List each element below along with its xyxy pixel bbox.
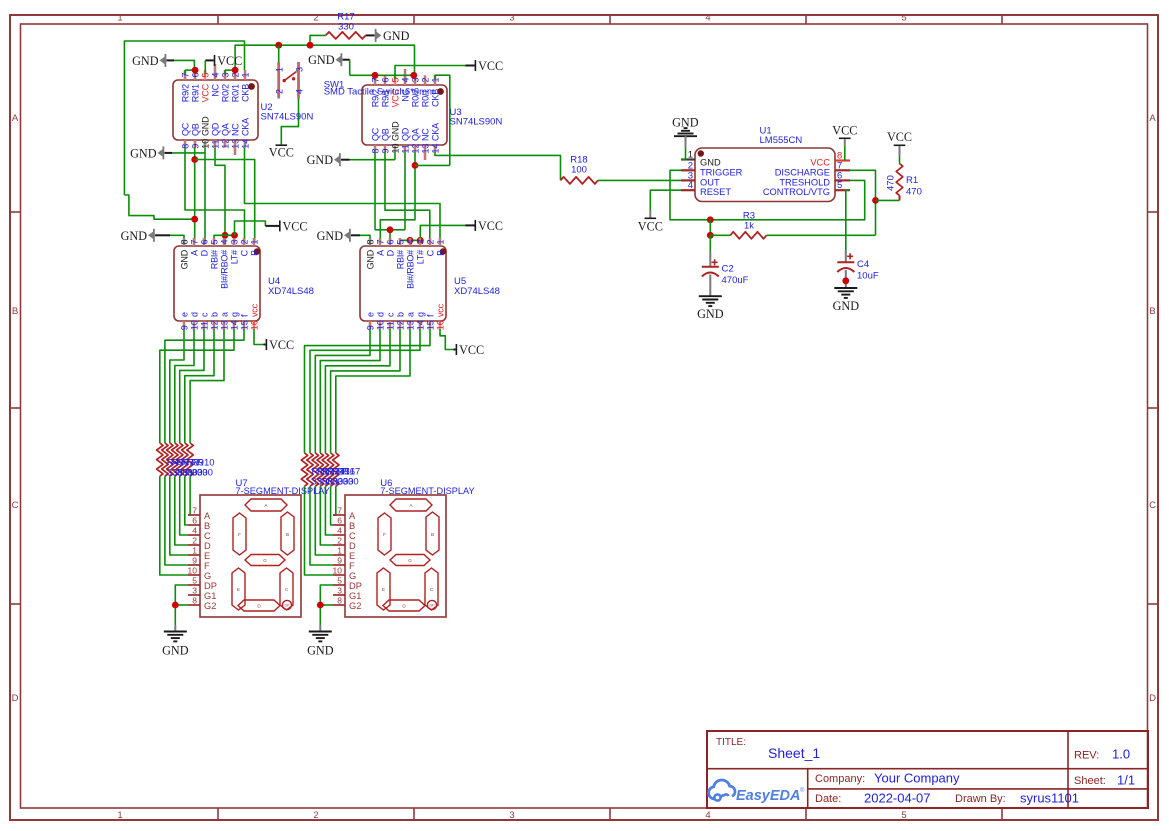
svg-text:LM555CN: LM555CN — [760, 135, 803, 146]
svg-text:A: A — [375, 250, 385, 256]
power flag VCC above R1 — [887, 130, 912, 155]
svg-text:®: ® — [800, 787, 805, 794]
wire U2 pin9 to U4 pin1 — [195, 160, 255, 244]
svg-text:E: E — [349, 551, 355, 561]
junction U5 pin3 — [417, 237, 424, 244]
svg-text:B: B — [286, 532, 289, 537]
wire VCC to U1 pin8 — [844, 147, 846, 161]
svg-text:8: 8 — [337, 596, 342, 606]
power flag VCC right of U3 top — [465, 59, 503, 73]
svg-text:a: a — [219, 312, 229, 317]
svg-text:GND: GND — [179, 249, 189, 269]
svg-text:7: 7 — [189, 239, 199, 244]
junction U2 pin2 — [232, 67, 239, 74]
junction U4 pin3 — [231, 232, 238, 239]
svg-text:LT#: LT# — [415, 250, 425, 264]
U1 right pin stubs — [835, 161, 850, 191]
svg-text:G1: G1 — [349, 591, 361, 601]
svg-text:Date:: Date: — [815, 793, 841, 805]
svg-text:Your Company: Your Company — [874, 771, 960, 786]
svg-text:R1: R1 — [906, 175, 918, 186]
svg-text:10: 10 — [375, 320, 385, 330]
wire U3 pin14 to R18 — [435, 152, 561, 180]
svg-text:4: 4 — [192, 526, 197, 536]
svg-text:1: 1 — [337, 546, 342, 556]
svg-text:B: B — [431, 532, 434, 537]
svg-text:4: 4 — [400, 77, 410, 82]
svg-text:D: D — [204, 541, 211, 551]
svg-text:7: 7 — [375, 239, 385, 244]
svg-text:G: G — [349, 571, 356, 581]
U7 pin names — [204, 511, 217, 611]
junction staircase joins pin7 column — [191, 216, 198, 223]
wire R1 bottom to DISCHARGE column — [876, 199, 900, 201]
resistor R18 100 — [561, 155, 599, 184]
wires left resistors to display U7 — [160, 476, 190, 575]
power flag VCC below SW1 — [269, 144, 294, 159]
U2 top pin names — [180, 83, 250, 102]
svg-text:7: 7 — [337, 506, 342, 516]
svg-text:470: 470 — [886, 175, 897, 191]
svg-text:QB: QB — [190, 123, 200, 136]
junction at R17 column — [307, 42, 314, 49]
svg-text:3: 3 — [337, 586, 342, 596]
svg-text:c: c — [385, 312, 395, 317]
svg-text:1/1: 1/1 — [1117, 773, 1135, 788]
wire U3 pin5 to VCC — [395, 66, 465, 80]
U4 top pin names — [179, 249, 259, 289]
svg-text:A: A — [1149, 113, 1156, 124]
resistor R1 470 vertical — [886, 164, 922, 201]
svg-text:GND: GND — [121, 229, 148, 243]
svg-text:8: 8 — [192, 596, 197, 606]
wires right resistors to display U6 — [305, 486, 336, 575]
capacitor C4 10uF polarized — [837, 250, 879, 288]
svg-text:1: 1 — [117, 13, 122, 24]
svg-text:GND: GND — [162, 644, 189, 658]
wire GND to U5 pin8 — [360, 235, 370, 238]
U4 bottom pin numbers — [179, 320, 259, 330]
svg-text:QD: QD — [210, 122, 220, 136]
display U6 7-SEGMENT-DISPLAY body — [345, 478, 475, 617]
power flag VCC above U2 — [205, 54, 242, 68]
svg-text:A: A — [349, 511, 356, 521]
svg-text:g: g — [415, 312, 425, 317]
U1 pin names — [700, 158, 830, 198]
svg-text:CKA: CKA — [240, 118, 250, 136]
wire U2 pin8 to U4 pin2 — [185, 148, 245, 243]
svg-text:9: 9 — [337, 556, 342, 566]
svg-text:10: 10 — [188, 566, 198, 576]
svg-text:A: A — [12, 113, 19, 124]
resistor stack R4-R10 330 left — [157, 443, 194, 476]
U4 bottom pin stubs — [184, 321, 254, 329]
U1 left pin stubs — [681, 160, 695, 191]
svg-text:GND: GND — [365, 249, 375, 269]
svg-text:13: 13 — [405, 320, 415, 330]
wire R3 column from trigger line — [709, 220, 711, 236]
svg-text:1k: 1k — [744, 221, 754, 232]
svg-text:4: 4 — [405, 239, 415, 244]
svg-text:D: D — [349, 541, 356, 551]
svg-text:10uF: 10uF — [857, 271, 879, 282]
svg-text:2: 2 — [275, 89, 285, 94]
svg-text:QC: QC — [370, 127, 380, 141]
svg-text:3: 3 — [509, 810, 514, 821]
svg-text:1: 1 — [435, 239, 445, 244]
svg-text:VCC: VCC — [459, 343, 484, 357]
svg-text:6: 6 — [192, 516, 197, 526]
svg-text:B: B — [249, 250, 259, 256]
wire GND to U4 pin8 — [170, 235, 184, 238]
svg-text:e: e — [365, 312, 375, 317]
U5 bottom pin stubs — [370, 321, 440, 329]
svg-text:7-SEGMENT-DISPLAY: 7-SEGMENT-DISPLAY — [380, 486, 474, 496]
wire U3 pin12 down to jog — [380, 152, 415, 243]
U6 pin numbers — [333, 506, 343, 606]
svg-text:vcc: vcc — [435, 303, 445, 317]
svg-text:10: 10 — [189, 320, 199, 330]
svg-text:4: 4 — [210, 72, 220, 77]
svg-text:10: 10 — [333, 566, 343, 576]
junction at SW1 pin1 column — [275, 42, 282, 49]
U2 top pin numbers — [180, 72, 250, 77]
svg-text:TITLE:: TITLE: — [716, 737, 746, 748]
EasyEDA logo — [709, 780, 805, 804]
svg-text:11: 11 — [210, 139, 220, 148]
svg-text:TRIGGER: TRIGGER — [700, 167, 743, 177]
svg-text:4: 4 — [688, 180, 693, 191]
svg-text:3: 3 — [509, 13, 514, 24]
svg-text:6: 6 — [385, 239, 395, 244]
svg-text:Sheet:: Sheet: — [1074, 775, 1106, 787]
svg-text:2: 2 — [313, 13, 318, 24]
svg-text:VCC: VCC — [810, 158, 830, 168]
svg-text:DP: DP — [349, 581, 362, 591]
svg-text:QB: QB — [380, 128, 390, 141]
display U7 7-SEGMENT-DISPLAY body — [200, 478, 330, 617]
svg-text:SMD Tactile Switch6*6mm: SMD Tactile Switch6*6mm — [324, 87, 435, 98]
U1 pin numbers — [688, 150, 843, 192]
U7 pin stubs — [188, 515, 200, 605]
junction U3 pin7 — [372, 72, 379, 79]
wire U4 pin3 to VCC flag — [235, 221, 266, 235]
svg-text:GND: GND — [697, 307, 724, 321]
wire U3 pin8 down — [374, 152, 376, 230]
svg-text:16: 16 — [435, 320, 445, 330]
wire SW1 pin1 drop — [278, 45, 280, 62]
U5 top pin numbers — [365, 239, 445, 244]
U3 bottom pin numbers — [370, 143, 440, 153]
svg-text:VCC: VCC — [269, 338, 294, 352]
svg-text:F: F — [349, 561, 355, 571]
svg-text:g: g — [229, 312, 239, 317]
svg-text:VCC: VCC — [200, 83, 210, 102]
svg-text:CKA: CKA — [430, 123, 440, 141]
svg-text:12: 12 — [410, 143, 420, 153]
junction U6 G2 — [317, 602, 324, 609]
ground flag GND above U3 — [308, 53, 350, 67]
wires U5 outputs fan to resistor stack — [305, 329, 431, 453]
wire top H2 net to U3 pin3 — [235, 45, 414, 75]
wire U4 pins5-3 tie — [214, 235, 235, 243]
svg-text:D: D — [1149, 693, 1156, 704]
IC U5 XD74LS48 body — [360, 246, 500, 321]
svg-text:QA: QA — [410, 128, 420, 141]
svg-text:D: D — [385, 249, 395, 256]
svg-text:QD: QD — [400, 127, 410, 141]
svg-text:2: 2 — [425, 239, 435, 244]
wires U4 outputs fan to resistor stack — [160, 329, 244, 443]
svg-text:Sheet_1: Sheet_1 — [768, 745, 820, 761]
wire U4 pin16 to VCC — [254, 329, 264, 345]
svg-text:R9/1: R9/1 — [190, 84, 200, 102]
capacitor C2 470uF polarized — [702, 252, 749, 296]
svg-text:100: 100 — [571, 165, 587, 176]
svg-text:3: 3 — [415, 239, 425, 244]
wire GND to U3 pins 7,3 — [350, 60, 414, 79]
svg-text:470uF: 470uF — [722, 275, 749, 286]
svg-text:Drawn By:: Drawn By: — [955, 793, 1006, 805]
U6 pin names — [349, 511, 362, 611]
wire U3 pin9 to U5 pin2 — [385, 152, 430, 243]
svg-text:1: 1 — [688, 150, 693, 161]
svg-text:G2: G2 — [204, 601, 216, 611]
resistor stack R11-R17 330 right — [301, 453, 339, 486]
svg-text:RBI#: RBI# — [209, 250, 219, 269]
svg-text:12: 12 — [220, 139, 230, 149]
junction U4 pin4 — [222, 232, 229, 239]
resistor R3 1k — [710, 211, 875, 239]
U6 pin stubs — [333, 515, 345, 605]
labels left resistor stack — [167, 458, 215, 479]
wire U5 pin16 to VCC — [440, 329, 454, 350]
svg-text:13: 13 — [219, 320, 229, 330]
svg-text:7: 7 — [192, 506, 197, 516]
power flag VCC below U4 right — [264, 338, 295, 352]
svg-text:E: E — [204, 551, 210, 561]
svg-text:NC: NC — [230, 123, 240, 136]
svg-text:3: 3 — [294, 67, 304, 72]
svg-text:RBI#: RBI# — [395, 250, 405, 269]
svg-text:GND: GND — [307, 153, 334, 167]
ground below C4 — [833, 288, 860, 313]
U3 top pin numbers — [370, 77, 440, 82]
svg-text:330: 330 — [338, 22, 354, 33]
wire U2 pins 3,2 tie — [225, 70, 235, 74]
wire U6 DP,G2 to ground — [320, 585, 333, 625]
svg-text:c: c — [199, 312, 209, 317]
wire staircase from left feedback to U4 pin7 column — [124, 195, 194, 219]
svg-text:2022-04-07: 2022-04-07 — [864, 791, 931, 806]
svg-text:XD74LS48: XD74LS48 — [454, 286, 500, 297]
U4 top pin numbers — [179, 239, 259, 244]
junction U2 pin9 jog — [191, 156, 198, 163]
svg-text:7-SEGMENT-DISPLAY: 7-SEGMENT-DISPLAY — [236, 486, 330, 496]
wire U5 pin3 to VCC flag — [420, 225, 465, 240]
svg-text:14: 14 — [229, 320, 239, 330]
power flag VCC above U1 pin8 — [832, 124, 857, 148]
svg-text:vcc: vcc — [249, 303, 259, 317]
svg-text:B: B — [1149, 306, 1155, 317]
svg-text:CKB: CKB — [240, 84, 250, 102]
svg-text:9: 9 — [192, 556, 197, 566]
svg-text:5: 5 — [395, 239, 405, 244]
svg-text:4: 4 — [337, 526, 342, 536]
power flag VCC left of U1 pin4 — [638, 210, 663, 234]
ground below U7 — [162, 625, 189, 658]
svg-text:OUT: OUT — [700, 177, 720, 187]
junction R3 left — [707, 232, 714, 239]
svg-text:C: C — [12, 500, 19, 511]
svg-text:13: 13 — [420, 143, 430, 153]
svg-text:BI#/RBO#: BI#/RBO# — [405, 250, 415, 289]
wire from net to R17 — [310, 35, 326, 45]
svg-text:syrus1101: syrus1101 — [1020, 791, 1079, 806]
svg-text:QA: QA — [220, 123, 230, 136]
wire U5 pins5-4-3 tie — [400, 240, 420, 243]
svg-text:2: 2 — [192, 536, 197, 546]
svg-text:GND: GND — [700, 158, 721, 168]
svg-text:3: 3 — [229, 239, 239, 244]
svg-text:16: 16 — [249, 320, 259, 330]
wire tie to U5 pin6 — [375, 230, 405, 243]
svg-text:1: 1 — [117, 810, 122, 821]
svg-text:RESET: RESET — [700, 187, 731, 197]
ground flag GND left of U5 — [317, 229, 360, 243]
svg-text:R0/1: R0/1 — [230, 84, 240, 102]
svg-text:GND: GND — [390, 121, 400, 141]
svg-text:NC: NC — [210, 83, 220, 96]
wire TRIGGER loop to TRESHOLD — [670, 170, 865, 220]
ground flag GND left of U4 — [121, 229, 170, 243]
ground flag GND below U2 — [130, 146, 172, 160]
junction below C4 — [842, 277, 849, 284]
svg-text:1: 1 — [240, 72, 250, 77]
ground flag GND above U2 — [132, 54, 174, 68]
IC U3 SN74LS90N body — [362, 85, 502, 145]
svg-text:8: 8 — [179, 239, 189, 244]
svg-text:SN74LS90N: SN74LS90N — [261, 112, 314, 123]
svg-text:5: 5 — [837, 180, 842, 191]
ground flag GND below U3 — [307, 153, 350, 167]
wire U3 pin1 loop to right side — [435, 75, 450, 165]
svg-text:NC: NC — [420, 128, 430, 141]
junction U7 G2 — [172, 602, 179, 609]
wire VCC to U2 pin5 — [204, 60, 206, 74]
svg-text:VCC: VCC — [832, 124, 857, 138]
svg-text:GND: GND — [833, 299, 860, 313]
svg-text:REV:: REV: — [1074, 750, 1099, 762]
svg-text:D: D — [12, 693, 19, 704]
svg-text:15: 15 — [239, 320, 249, 330]
svg-text:10: 10 — [390, 143, 400, 153]
wire GND to U2 pins 7,6 — [174, 60, 195, 74]
U2 top pin stubs — [185, 64, 245, 80]
power flag VCC below U5 right — [454, 343, 485, 357]
ground below C2 — [697, 296, 724, 321]
svg-text:VCC: VCC — [478, 219, 503, 233]
ground flag GND right of R17 — [366, 29, 410, 43]
IC U1 LM555CN body — [695, 126, 835, 202]
svg-text:8: 8 — [365, 239, 375, 244]
resistor R17 330 — [326, 12, 366, 39]
U3 bottom pin names — [370, 121, 440, 141]
svg-text:F: F — [204, 561, 210, 571]
svg-text:G: G — [408, 558, 412, 563]
svg-text:6: 6 — [337, 516, 342, 526]
svg-text:R0/2: R0/2 — [220, 84, 230, 102]
svg-text:5: 5 — [192, 576, 197, 586]
svg-text:R9/2: R9/2 — [180, 84, 190, 102]
svg-text:VCC: VCC — [887, 130, 912, 144]
svg-text:G2: G2 — [349, 601, 361, 611]
svg-text:DP: DP — [204, 581, 217, 591]
U4 top pin stubs — [184, 238, 254, 246]
switch SW1 SMD Tactile Switch — [275, 62, 305, 99]
wire U2 pin9 down to U4 pin7 — [194, 148, 196, 243]
svg-text:LT#: LT# — [229, 250, 239, 264]
svg-text:A: A — [189, 250, 199, 256]
svg-text:G: G — [263, 558, 267, 563]
wire VCC to R1 — [899, 155, 901, 164]
wire GND to U1 pin1 — [681, 148, 686, 160]
svg-text:GND: GND — [130, 146, 157, 160]
svg-text:12: 12 — [395, 320, 405, 330]
svg-text:EasyEDA: EasyEDA — [736, 788, 800, 804]
svg-text:d: d — [189, 312, 199, 317]
svg-text:15: 15 — [425, 320, 435, 330]
svg-text:TRESHOLD: TRESHOLD — [779, 177, 830, 187]
svg-text:DP: DP — [430, 604, 436, 608]
svg-text:1.0: 1.0 — [1112, 747, 1130, 762]
U3 bottom pin stubs — [375, 145, 435, 160]
svg-text:1: 1 — [275, 67, 285, 72]
svg-text:b: b — [209, 312, 219, 317]
svg-text:4: 4 — [219, 239, 229, 244]
U5 bottom pin names — [365, 303, 445, 317]
svg-text:C4: C4 — [857, 259, 869, 270]
svg-text:GND: GND — [317, 229, 344, 243]
svg-text:B: B — [12, 306, 18, 317]
wire R18 to U1 OUT — [598, 179, 681, 181]
svg-text:DISCHARGE: DISCHARGE — [775, 167, 830, 177]
svg-text:C: C — [1149, 500, 1156, 511]
ground flag GND above U1 pin1 — [672, 116, 699, 149]
U5 bottom pin numbers — [365, 320, 445, 330]
svg-text:470: 470 — [906, 187, 922, 198]
svg-text:C2: C2 — [722, 264, 734, 275]
svg-text:330: 330 — [343, 477, 359, 488]
svg-text:F: F — [383, 532, 386, 537]
wire SW1 pin4 to VCC — [281, 99, 298, 145]
junction U5 pin6 column — [387, 226, 394, 233]
svg-text:B: B — [204, 521, 210, 531]
wire GND to U3 pin10 — [350, 152, 396, 160]
wire U7 DP,G2 to ground — [175, 585, 188, 625]
svg-text:DP: DP — [285, 604, 291, 608]
svg-text:11: 11 — [385, 321, 395, 330]
power flag VCC right of U5 top — [465, 219, 503, 233]
svg-text:VCC: VCC — [269, 145, 294, 159]
svg-text:E: E — [237, 587, 240, 592]
wire U2 pin11 jog to U4 pin4 — [215, 148, 225, 243]
svg-text:2: 2 — [420, 77, 430, 82]
svg-text:5: 5 — [901, 810, 906, 821]
wire U3 pin12 junction to right column — [415, 164, 450, 166]
svg-text:1: 1 — [192, 546, 197, 556]
svg-text:2: 2 — [313, 810, 318, 821]
